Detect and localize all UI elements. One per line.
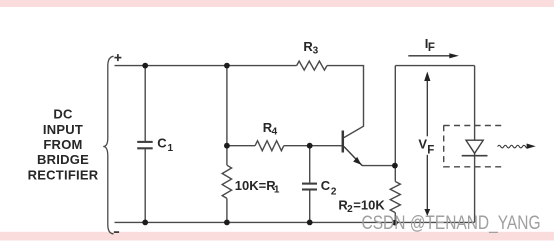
svg-text:10K=R: 10K=R [235,178,276,193]
svg-text:C: C [157,135,167,150]
svg-text:2: 2 [331,186,337,197]
svg-text:V: V [418,137,427,152]
svg-text:4: 4 [272,127,278,138]
svg-text:1: 1 [274,184,280,195]
svg-text:RECTIFIER: RECTIFIER [28,167,99,182]
svg-text:F: F [427,144,434,156]
svg-text:FROM: FROM [43,137,82,152]
svg-text:3: 3 [313,46,319,57]
svg-text:DC: DC [53,107,73,122]
svg-text:INPUT: INPUT [43,122,83,137]
svg-text:BRIDGE: BRIDGE [37,152,89,167]
svg-text:=10K: =10K [353,198,385,213]
svg-text:1: 1 [168,143,174,154]
svg-text:C: C [321,178,331,193]
svg-text:2: 2 [347,204,353,215]
svg-text:F: F [428,42,435,54]
svg-text:CSDN @TENAND_YANG: CSDN @TENAND_YANG [362,212,541,234]
